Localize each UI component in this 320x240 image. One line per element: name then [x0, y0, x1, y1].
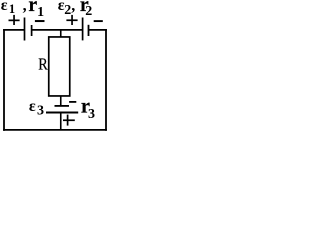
wire bottom edge [3, 129, 107, 131]
svg-text:3: 3 [88, 107, 95, 122]
B2 plus sign [66, 15, 77, 25]
svg-text:ε: ε [29, 98, 36, 115]
svg-text:1: 1 [9, 2, 15, 16]
wire battery B3 to bottom [60, 114, 62, 131]
svg-text:r: r [28, 0, 37, 16]
B2 minus sign [94, 20, 103, 22]
wire top-right segment [89, 29, 107, 31]
svg-text:2: 2 [85, 4, 92, 19]
svg-text:3: 3 [37, 103, 44, 118]
B3 minus sign [69, 101, 76, 103]
svg-text:,: , [23, 0, 27, 15]
svg-text:ε: ε [1, 0, 8, 14]
wire resistor to battery B3 [60, 96, 62, 106]
battery B3 short plate (-) [55, 105, 70, 107]
B3 plus sign [63, 115, 75, 126]
svg-text:1: 1 [37, 5, 44, 20]
battery B1 long plate (+) [24, 18, 26, 41]
wire top-middle segment [32, 29, 83, 31]
battery B2 long plate (+) [82, 18, 84, 41]
svg-text:,: , [71, 0, 75, 14]
battery B2 short plate (-) [88, 25, 90, 36]
B1 plus sign [9, 15, 20, 25]
battery B3 long plate (+) [46, 112, 78, 114]
svg-text:R: R [38, 54, 48, 73]
wire left edge [3, 29, 5, 131]
resistor R box [49, 37, 70, 96]
B1 minus sign [35, 20, 45, 22]
wire right edge [105, 29, 107, 131]
battery B1 short plate (-) [31, 25, 33, 36]
wire top-left segment [3, 29, 24, 31]
wire stub top to resistor [60, 29, 62, 37]
svg-text:2: 2 [64, 3, 71, 18]
